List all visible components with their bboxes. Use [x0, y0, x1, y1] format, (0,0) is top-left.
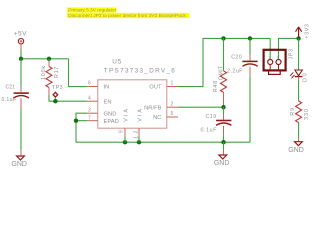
pin 3 GND — [87, 108, 116, 118]
wire +5V down to rail — [20, 44, 22, 59]
power +3V3 arrow — [296, 23, 311, 38]
svg-text:5: 5 — [171, 111, 174, 117]
svg-text:C19: C19 — [206, 114, 217, 120]
pin 5 NC — [153, 111, 178, 121]
junction +5V/C21 node — [19, 57, 23, 61]
svg-text:0.1uF: 0.1uF — [201, 127, 218, 133]
junction VIA1 on rail — [123, 140, 127, 144]
svg-text:+3V3: +3V3 — [305, 23, 311, 38]
svg-text:TP3: TP3 — [52, 85, 63, 91]
svg-text:VIA: VIA — [123, 107, 129, 122]
svg-text:Primary 3.3V regulator: Primary 3.3V regulator — [68, 8, 116, 14]
svg-text:1: 1 — [171, 81, 174, 87]
svg-text:EN: EN — [104, 100, 112, 106]
pin 7 EPAD — [87, 115, 119, 125]
wire +3V3 node to LED — [298, 38, 300, 69]
wire rail to IN pin — [69, 59, 88, 87]
ground GND under C21 — [11, 156, 27, 168]
svg-text:100k: 100k — [41, 65, 47, 80]
wire LED to R9 — [298, 77, 300, 81]
wire GND/EPAD pins to bottom rail — [76, 113, 87, 142]
capacitor C19 — [201, 107, 232, 142]
pin 2 NR/FB — [144, 101, 178, 111]
svg-text:2: 2 — [268, 55, 270, 59]
svg-text:GND: GND — [104, 111, 117, 117]
test point TP3 — [52, 85, 63, 101]
pin 6 IN — [87, 81, 109, 91]
junction +3V3 node — [296, 36, 300, 40]
pin 1 OUT — [149, 81, 178, 91]
junction EPAD tee — [74, 119, 78, 123]
pin 12 VIA bottom right — [133, 107, 143, 139]
svg-text:+5V: +5V — [14, 31, 27, 38]
svg-text:EPAD: EPAD — [104, 119, 119, 125]
wire NR/FB to C19 node — [178, 106, 224, 108]
wire VIA2 stub to rail — [138, 137, 140, 143]
svg-text:NR/FB: NR/FB — [144, 105, 162, 111]
capacitor C21 — [2, 59, 29, 156]
wire R17 to EN row — [49, 95, 87, 101]
svg-text:330: 330 — [304, 108, 310, 120]
svg-text:IN: IN — [104, 85, 110, 91]
capacitor C20 — [227, 38, 258, 142]
wire VIA1 stub to rail — [124, 137, 126, 143]
svg-text:4: 4 — [88, 96, 91, 102]
svg-text:9: 9 — [118, 130, 124, 133]
svg-text:2.2uF: 2.2uF — [227, 69, 243, 75]
LED D0 — [290, 70, 309, 82]
svg-text:GND: GND — [11, 161, 27, 168]
junction VIA2 on rail — [137, 140, 141, 144]
annotation note: yellow highlighted comment — [67, 7, 190, 19]
svg-text:U5: U5 — [112, 59, 122, 66]
svg-text:GND: GND — [214, 160, 230, 167]
wire rail to mid GND — [223, 142, 225, 149]
svg-text:C21: C21 — [6, 84, 16, 90]
svg-text:GND: GND — [288, 147, 304, 154]
jumper JP3 — [264, 38, 299, 74]
svg-text:Disconnect JP3 to power device: Disconnect JP3 to power device from 3V3 … — [68, 13, 186, 19]
power +5V supply symbol — [14, 31, 27, 44]
ground GND right — [288, 142, 304, 154]
resistor R48 OMIT — [213, 38, 226, 107]
pin 9 VIA bottom left — [118, 107, 129, 137]
IC U5 TPS73733_DRV_6 body — [98, 59, 176, 129]
junction R48 on top rail — [221, 36, 225, 40]
svg-text:R9: R9 — [290, 107, 296, 116]
pin 4 EN — [87, 96, 111, 106]
junction NR/FB node — [221, 105, 225, 109]
svg-text:OUT: OUT — [149, 85, 162, 91]
svg-text:TPS73733_DRV_6: TPS73733_DRV_6 — [104, 68, 176, 75]
junction TP3 on EN wire — [53, 99, 57, 103]
svg-text:D0: D0 — [302, 72, 308, 83]
resistor R17 100k — [41, 59, 60, 95]
wire top-left rail — [21, 58, 69, 60]
wire OUT to top rail — [178, 38, 270, 86]
svg-text:7: 7 — [88, 115, 91, 121]
wire R9 to GND — [298, 123, 300, 137]
svg-text:1: 1 — [277, 55, 279, 59]
junction R17 top — [47, 57, 51, 61]
junction C20 on top rail — [248, 36, 252, 40]
svg-text:R48: R48 — [213, 80, 219, 92]
svg-text:JP3: JP3 — [289, 48, 295, 59]
svg-text:R17: R17 — [54, 66, 60, 78]
svg-text:3: 3 — [88, 108, 91, 114]
svg-text:VIA: VIA — [137, 107, 143, 122]
ground GND mid — [214, 155, 230, 167]
svg-text:NC: NC — [153, 115, 161, 121]
svg-text:C20: C20 — [231, 55, 242, 61]
bottom ground rail — [76, 141, 250, 143]
resistor R9 330 — [290, 101, 310, 123]
junction C19 on bottom rail — [221, 140, 225, 144]
svg-text:6: 6 — [88, 81, 91, 87]
svg-text:2: 2 — [171, 101, 174, 107]
